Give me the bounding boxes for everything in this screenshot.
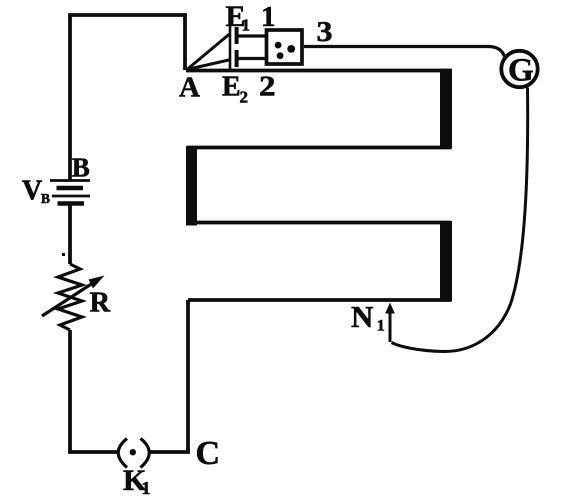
- svg-text:1: 1: [377, 318, 385, 335]
- svg-text:R: R: [90, 288, 111, 319]
- svg-text:2: 2: [240, 88, 249, 107]
- svg-text:C: C: [196, 435, 221, 472]
- svg-text:1: 1: [242, 16, 251, 35]
- svg-text:A: A: [179, 72, 200, 104]
- svg-text:1: 1: [142, 478, 151, 497]
- svg-text:E: E: [222, 72, 241, 103]
- svg-text:V: V: [22, 176, 42, 207]
- svg-text:2: 2: [259, 71, 276, 103]
- svg-text:3: 3: [317, 16, 333, 48]
- svg-text:G: G: [508, 53, 534, 89]
- svg-text:B: B: [41, 191, 50, 206]
- svg-text:1: 1: [261, 1, 276, 33]
- svg-text:N: N: [351, 299, 373, 334]
- svg-text:B: B: [72, 152, 90, 182]
